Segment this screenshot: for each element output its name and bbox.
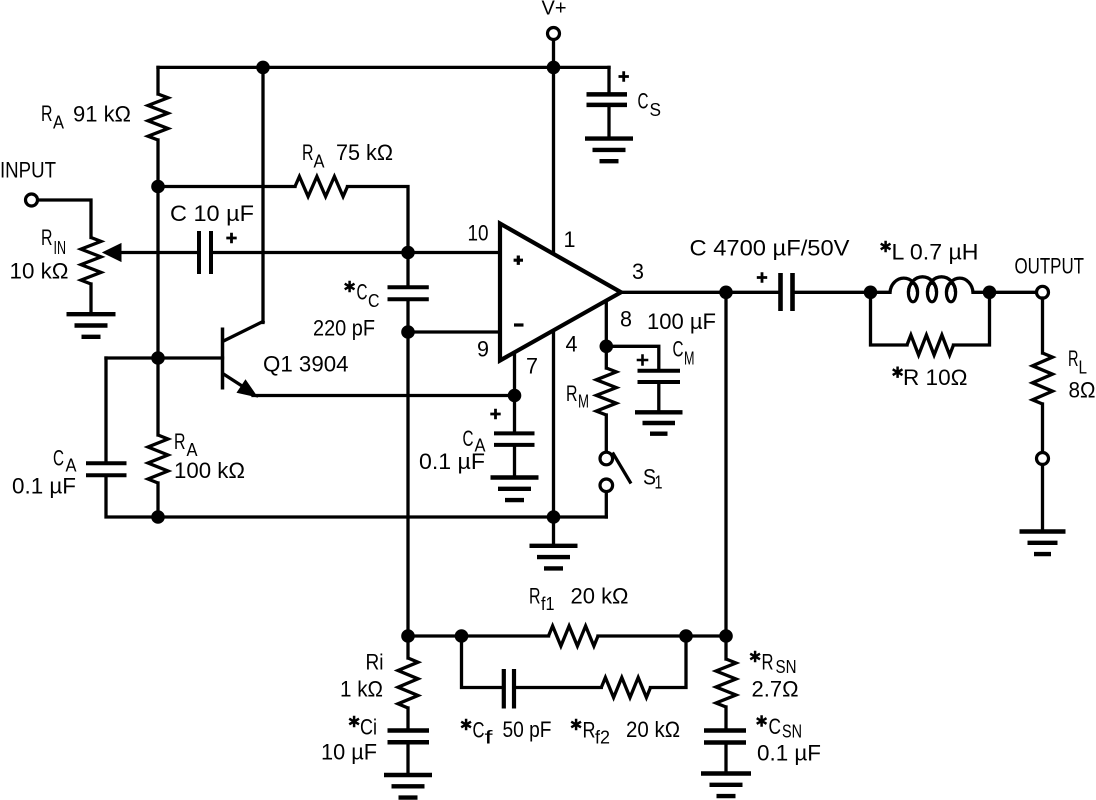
svg-text:Ri: Ri	[366, 650, 384, 675]
wire pin7 to CA right	[513, 396, 516, 432]
svg-text:10 kΩ: 10 kΩ	[10, 259, 69, 284]
label CA right value	[419, 449, 485, 474]
capacitor C 4700uF	[781, 273, 793, 311]
svg-text:1: 1	[564, 227, 576, 252]
wire S1 to ground bus	[605, 493, 608, 517]
terminal OUTPUT	[1037, 286, 1049, 298]
wire C to +input node	[213, 251, 408, 254]
polarity + of C 10uF	[226, 233, 236, 243]
op-amp - mark	[514, 323, 524, 326]
ground under CA right	[491, 478, 539, 501]
junction top rail / V+	[547, 61, 561, 75]
wire base node to CA left	[104, 358, 107, 462]
svg-text:100 µF: 100 µF	[647, 309, 716, 334]
label Ci	[349, 715, 377, 740]
transistor Q1 collector	[224, 67, 264, 341]
svg-text:C: C	[769, 714, 782, 739]
junction feedback / snubber	[719, 629, 733, 643]
svg-text:0.1 µF: 0.1 µF	[12, 474, 76, 499]
polarity + of CA right	[490, 409, 500, 419]
label Ri	[366, 650, 384, 675]
resistor Rf2	[601, 678, 650, 698]
svg-text:A: A	[66, 455, 78, 476]
ground under CM	[635, 412, 683, 433]
svg-text:IN: IN	[54, 237, 67, 258]
svg-text:R: R	[302, 140, 314, 165]
capacitor CM	[638, 371, 681, 411]
svg-text:C: C	[673, 337, 684, 362]
svg-text:50 pF: 50 pF	[503, 717, 552, 742]
resistor RA 100k	[148, 435, 168, 483]
svg-text:OUTPUT: OUTPUT	[1015, 254, 1085, 279]
wire Ri leads	[406, 636, 409, 729]
svg-text:10 µF: 10 µF	[321, 740, 377, 765]
capacitor CS	[587, 94, 628, 136]
junction L left	[864, 286, 878, 300]
resistor RL	[1033, 353, 1053, 404]
capacitor Ci	[388, 731, 430, 774]
junction feedback / Rf2 branch	[679, 629, 693, 643]
wire pin8 node to CM	[606, 346, 659, 369]
label RA 75k	[302, 140, 393, 172]
junction RA91k / RA75k	[151, 180, 165, 194]
svg-text:8Ω: 8Ω	[1069, 377, 1096, 402]
wire output node down to snubber	[724, 292, 727, 636]
pin label 7	[526, 354, 538, 379]
ground under Ci	[384, 775, 432, 798]
label Ri value	[340, 677, 383, 702]
label Ci value	[321, 740, 377, 765]
wire pin8	[605, 301, 608, 346]
pin label 8	[620, 307, 632, 332]
junction ground bus / RA100k	[151, 510, 165, 524]
svg-text:0.1 µF: 0.1 µF	[419, 449, 485, 474]
svg-text:8: 8	[620, 307, 632, 332]
label RSN value	[752, 677, 799, 702]
svg-text:20 kΩ: 20 kΩ	[626, 717, 680, 742]
transistor Q1 emitter	[224, 374, 257, 397]
wire RL to terminal	[1041, 404, 1044, 453]
ground under CSN	[701, 774, 751, 797]
resistor RSN	[716, 659, 736, 707]
label Cf	[461, 718, 494, 748]
svg-text:C: C	[638, 89, 649, 114]
svg-text:4: 4	[566, 332, 578, 357]
label Rf2 value	[626, 717, 680, 742]
label CSN value	[757, 741, 821, 766]
op-amp + mark	[514, 256, 523, 265]
wire output terminal to RL	[1041, 298, 1044, 353]
junction feedback / Ri	[401, 629, 415, 643]
svg-text:A: A	[187, 439, 199, 460]
wire node to RA75k	[158, 185, 295, 188]
label RL	[1068, 346, 1087, 378]
svg-text:V+: V+	[542, 0, 567, 20]
terminal V+	[548, 28, 560, 40]
label CM value	[647, 309, 716, 334]
resistor RM	[596, 368, 616, 415]
label S1	[643, 465, 663, 493]
capacitor CC	[388, 287, 429, 299]
svg-text:C 10 µF: C 10 µF	[170, 201, 254, 226]
wire input to pot	[38, 200, 91, 238]
svg-text:L: L	[1079, 357, 1088, 378]
svg-text:R: R	[1068, 346, 1079, 371]
wire top supply rail	[158, 66, 609, 69]
label CC	[345, 280, 380, 312]
svg-text:3: 3	[632, 259, 644, 284]
ground under CS	[585, 139, 633, 162]
junction pin7 / emitter	[508, 389, 522, 403]
terminal RL bottom	[1037, 453, 1049, 465]
label RIN	[41, 225, 66, 258]
node INPUT label	[0, 158, 56, 183]
wire RA100k leads	[156, 358, 159, 517]
wire -input to pin9	[408, 330, 500, 333]
label CA left	[53, 446, 77, 476]
wire C_S branch	[607, 67, 610, 92]
label RM	[566, 381, 589, 412]
wire ground bus	[158, 515, 606, 518]
inductor L	[890, 277, 973, 302]
label CSN	[757, 714, 802, 742]
svg-text:M: M	[578, 391, 589, 412]
resistor Rf1	[549, 626, 599, 646]
svg-text:A: A	[53, 112, 65, 133]
svg-text:220 pF: 220 pF	[313, 316, 375, 341]
ground at pin4 bus	[530, 517, 578, 568]
svg-text:0.1 µF: 0.1 µF	[757, 741, 821, 766]
wire base net	[106, 356, 223, 359]
junction -input node	[401, 325, 415, 339]
wire V+ stem	[552, 41, 555, 68]
wire +input to pin10	[408, 251, 500, 254]
svg-text:Q1 3904: Q1 3904	[263, 352, 349, 377]
label C 4700uF	[690, 236, 850, 261]
svg-text:R 10Ω: R 10Ω	[903, 365, 968, 390]
junction +input node	[401, 246, 415, 260]
wire pin7	[513, 353, 516, 396]
svg-text:75 kΩ: 75 kΩ	[336, 140, 393, 165]
wire pin8 to RM	[605, 346, 608, 368]
junction output / RSN branch	[719, 286, 733, 300]
wire feedback rail	[408, 634, 726, 637]
label RA 100k	[174, 429, 198, 460]
svg-text:R: R	[583, 718, 596, 743]
wire rail to RA91k	[156, 67, 159, 94]
polarity + of C 4700uF	[757, 272, 767, 282]
svg-text:M: M	[684, 348, 695, 369]
wire -input node down to feedback	[406, 332, 409, 636]
svg-text:A: A	[314, 150, 326, 171]
wire pin1 from rail	[552, 67, 555, 255]
svg-text:R: R	[41, 225, 53, 250]
polarity + of CM	[637, 354, 649, 366]
polarity + of CS	[619, 71, 629, 81]
svg-text:Ci: Ci	[360, 715, 377, 740]
svg-text:1 kΩ: 1 kΩ	[340, 677, 383, 702]
wire RL terminal to ground	[1041, 465, 1044, 530]
junction L right	[983, 286, 997, 300]
capacitor Cf	[504, 669, 514, 709]
capacitor CA right	[494, 433, 535, 475]
wire pin3 output	[621, 291, 778, 294]
svg-text:20 kΩ: 20 kΩ	[571, 584, 629, 609]
ground under RIN	[67, 314, 116, 337]
potentiometer RIN	[81, 238, 101, 285]
label CA right	[463, 426, 487, 456]
wire RA91k to node	[156, 140, 159, 187]
wire emitter to pin7 node	[253, 394, 515, 397]
junction top rail / collector	[256, 61, 270, 75]
svg-text:R: R	[41, 101, 53, 126]
wire RA75k to +input node	[348, 187, 409, 253]
capacitor CA left	[86, 463, 127, 475]
pot wiper arrow	[103, 244, 197, 262]
pin label 9	[477, 337, 489, 362]
wire pin4	[552, 331, 555, 517]
pin label 10	[468, 221, 489, 246]
svg-text:100 kΩ: 100 kΩ	[174, 458, 245, 483]
wire pot to ground	[89, 284, 92, 312]
wire RA91k node down	[156, 187, 159, 359]
transistor Q1 base bar	[221, 328, 225, 390]
wire RM to S1	[605, 415, 608, 451]
junction base / RA100k	[151, 351, 165, 365]
label R star	[893, 365, 968, 390]
capacitor CSN	[704, 731, 746, 772]
svg-text:C 4700 µF/50V: C 4700 µF/50V	[690, 236, 850, 261]
svg-text:R: R	[566, 381, 578, 406]
label CM	[673, 337, 695, 369]
svg-text:10: 10	[468, 221, 489, 246]
svg-text:9: 9	[477, 337, 489, 362]
svg-text:C: C	[368, 290, 380, 311]
wire R star branch	[871, 292, 990, 345]
svg-text:C: C	[463, 426, 474, 451]
resistor R star	[907, 335, 954, 355]
label C 10uF	[170, 201, 254, 226]
label CA left value	[12, 474, 76, 499]
wire RSN leads	[724, 636, 727, 729]
label OUTPUT	[1015, 254, 1085, 279]
svg-text:R: R	[762, 650, 774, 675]
svg-text:SN: SN	[782, 721, 802, 742]
resistor RA 91k	[148, 94, 168, 140]
svg-text:C: C	[473, 718, 485, 743]
switch S1	[600, 452, 631, 491]
node V+ label	[542, 0, 567, 20]
label RIN value	[10, 259, 69, 284]
label RSN	[750, 650, 796, 678]
junction pin8 node	[600, 340, 614, 354]
label Rf1	[529, 584, 629, 614]
resistor RA 75k	[295, 177, 348, 197]
svg-text:C: C	[357, 280, 368, 305]
svg-text:f1: f1	[541, 593, 555, 614]
wire L to output terminal	[973, 291, 1037, 294]
svg-text:2.7Ω: 2.7Ω	[752, 677, 799, 702]
pin label 1	[564, 227, 576, 252]
svg-text:R: R	[174, 429, 186, 454]
svg-text:R: R	[529, 584, 541, 609]
pin label 3	[632, 259, 644, 284]
label RA 91k	[41, 101, 131, 133]
label CS	[638, 89, 662, 121]
svg-text:S: S	[650, 99, 662, 120]
wire cap to L node	[795, 291, 890, 294]
label Rf2	[571, 718, 610, 748]
label RA 100k value	[174, 458, 245, 483]
svg-text:7: 7	[526, 354, 538, 379]
svg-text:1: 1	[655, 472, 663, 493]
svg-text:INPUT: INPUT	[0, 158, 56, 183]
wire node to CC	[406, 253, 409, 286]
wire Cf to Rf2	[517, 686, 602, 689]
wire CA left to ground bus	[106, 477, 158, 517]
wire CC to -input node	[406, 301, 409, 332]
svg-text:SN: SN	[776, 656, 797, 677]
wire Cf branch down	[462, 636, 502, 688]
svg-text:f: f	[485, 727, 494, 748]
label RL value	[1069, 377, 1096, 402]
ground under RL	[1020, 532, 1066, 555]
svg-text:C: C	[53, 446, 64, 471]
svg-text:L 0.7 µH: L 0.7 µH	[892, 240, 979, 265]
pin label 4	[566, 332, 578, 357]
label Q1	[263, 352, 349, 377]
label Cf value	[503, 717, 552, 742]
label CC value	[313, 316, 375, 341]
junction ground bus / pin4	[547, 510, 561, 524]
op-amp U1	[500, 224, 621, 361]
svg-text:91 kΩ: 91 kΩ	[73, 102, 131, 127]
wire Rf2 up to feedback	[651, 636, 687, 688]
label L	[881, 240, 979, 265]
terminal INPUT	[26, 194, 38, 206]
svg-text:f2: f2	[595, 727, 610, 748]
junction feedback / Cf branch	[455, 629, 469, 643]
resistor Ri	[398, 658, 418, 708]
capacitor C 10uF	[199, 231, 211, 274]
